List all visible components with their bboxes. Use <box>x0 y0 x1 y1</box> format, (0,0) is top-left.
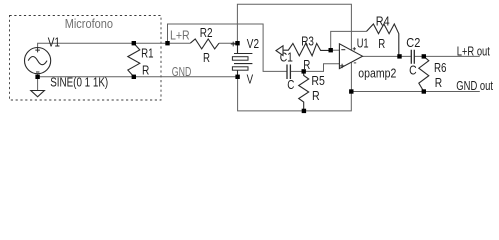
svg-text:R6: R6 <box>434 60 447 75</box>
svg-text:R2: R2 <box>200 25 213 40</box>
svg-text:opamp2: opamp2 <box>358 65 396 80</box>
wire GND out rail <box>351 91 480 93</box>
resistor R1 <box>128 43 140 77</box>
resistor R4 <box>367 24 399 56</box>
wire top rail L+R net <box>38 43 191 47</box>
resistor R5 <box>299 71 309 111</box>
svg-text:V1: V1 <box>48 35 60 50</box>
svg-text:GND: GND <box>172 64 192 79</box>
microphone dashed enclosure box <box>10 16 162 101</box>
wire opamp V- pin down <box>350 62 352 91</box>
svg-text:R5: R5 <box>311 73 325 88</box>
svg-text:R: R <box>312 88 320 103</box>
svg-text:R: R <box>142 62 149 77</box>
wire R5 node to opamp plus input <box>304 64 340 72</box>
op-amp U1 <box>339 44 362 69</box>
wire opamp output to C2 <box>363 55 412 57</box>
plus mark battery <box>231 42 236 47</box>
resistor R3 <box>283 43 331 55</box>
wire C2 to L+R out rail <box>414 55 479 57</box>
capacitor C2 <box>411 50 414 64</box>
wire GND rail <box>38 76 238 78</box>
svg-text:L+R out: L+R out <box>457 45 491 59</box>
svg-text:C2: C2 <box>406 35 420 50</box>
capacitor C1 <box>287 65 290 80</box>
wire C1 to R5 node <box>290 70 303 72</box>
port arrow R3 input <box>276 46 283 56</box>
wire R2 to battery <box>219 42 238 44</box>
battery V2 <box>232 43 252 77</box>
wire R3 to opamp minus input <box>331 49 340 51</box>
svg-text:L+R: L+R <box>170 27 190 42</box>
svg-text:U1: U1 <box>357 35 369 50</box>
svg-text:V2: V2 <box>247 36 259 51</box>
svg-text:V: V <box>247 71 254 86</box>
svg-text:R: R <box>435 75 442 90</box>
svg-text:R1: R1 <box>141 46 153 61</box>
wire L+R node overpass to C1 <box>168 24 288 71</box>
svg-text:C: C <box>409 63 417 78</box>
wire V1 bottom stub <box>37 74 39 91</box>
ground symbol <box>31 91 45 97</box>
resistor R2 <box>190 39 219 49</box>
junction dots <box>35 41 426 113</box>
wire feedback over opamp <box>331 31 367 50</box>
svg-text:C: C <box>287 77 294 92</box>
svg-text:SINE(0 1 1K): SINE(0 1 1K) <box>50 74 108 89</box>
voltage source V1 sine <box>24 48 50 74</box>
svg-text:R4: R4 <box>376 13 390 28</box>
svg-text:Microfono: Microfono <box>65 16 113 31</box>
svg-text:R: R <box>378 36 385 51</box>
wire battery plus loop to opamp V+ <box>237 4 351 50</box>
svg-text:GND out: GND out <box>456 79 493 93</box>
wire battery minus to bottom rail to opamp V- node <box>238 77 352 111</box>
svg-text:R: R <box>203 50 210 65</box>
resistor R6 <box>419 56 429 91</box>
svg-text:R3: R3 <box>301 34 314 49</box>
